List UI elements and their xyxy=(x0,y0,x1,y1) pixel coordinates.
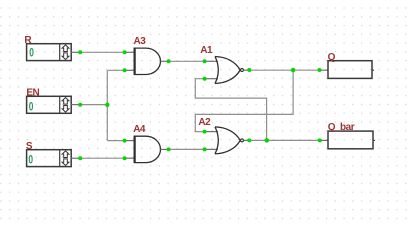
node EN pin xyxy=(78,103,82,107)
NOR gate A2 xyxy=(205,127,250,154)
AND gate A4 xyxy=(125,136,169,163)
node EN junction xyxy=(105,103,110,108)
node A1 input b xyxy=(203,77,207,81)
svg-text:0: 0 xyxy=(29,47,34,60)
node Q_bar feedback junction xyxy=(265,138,270,143)
input EN xyxy=(27,96,81,113)
node R pin xyxy=(78,50,82,54)
node A2 output xyxy=(247,138,251,142)
wire feedback A2 input a to Q net xyxy=(195,70,293,131)
wire feedback A1 input b to Q_bar net xyxy=(195,79,266,141)
node S pin xyxy=(78,156,82,160)
node A1 input a xyxy=(203,59,207,63)
AND gate A3 xyxy=(125,48,169,75)
wire A4 out to A2 input b xyxy=(169,148,205,150)
node A3 input b xyxy=(123,68,127,72)
node A4 input a xyxy=(123,139,127,143)
svg-text:A4: A4 xyxy=(133,124,146,135)
NOR gate A1 xyxy=(205,57,250,84)
wire EN to junction xyxy=(80,104,107,106)
node Q pin xyxy=(318,68,322,72)
node A2 input b xyxy=(203,147,207,151)
wire R to A3 input a xyxy=(80,51,124,53)
svg-text:A1: A1 xyxy=(200,45,213,56)
node A1 output xyxy=(247,68,251,72)
svg-text:0: 0 xyxy=(29,101,34,114)
output Q_bar xyxy=(320,131,375,149)
wire junction to A3 input b xyxy=(107,69,124,71)
wire A3 out to A1 input a xyxy=(169,60,205,62)
svg-text:A3: A3 xyxy=(134,36,147,47)
input S xyxy=(27,150,81,167)
node Q_bar pin xyxy=(318,138,322,142)
wire A2 out to Q_bar xyxy=(249,139,319,141)
wire S to A4 input b xyxy=(80,157,124,159)
output Q xyxy=(320,61,375,79)
svg-text:S: S xyxy=(26,141,33,152)
node A3 output xyxy=(167,59,171,63)
svg-text:EN: EN xyxy=(26,87,39,98)
svg-text:A2: A2 xyxy=(198,117,211,128)
svg-text:0: 0 xyxy=(28,154,33,167)
node A4 input b xyxy=(123,156,127,160)
svg-text:Q: Q xyxy=(328,52,336,63)
node Q feedback junction xyxy=(291,68,296,73)
wire junction to A4 input a xyxy=(107,140,124,142)
svg-text:Q_bar: Q_bar xyxy=(328,122,355,133)
node A4 output xyxy=(167,147,171,151)
wire A1 out to Q xyxy=(249,69,319,71)
node A2 input a xyxy=(203,130,207,134)
node A3 input a xyxy=(123,50,127,54)
wire junction vertical xyxy=(106,70,108,140)
input R xyxy=(27,44,81,61)
